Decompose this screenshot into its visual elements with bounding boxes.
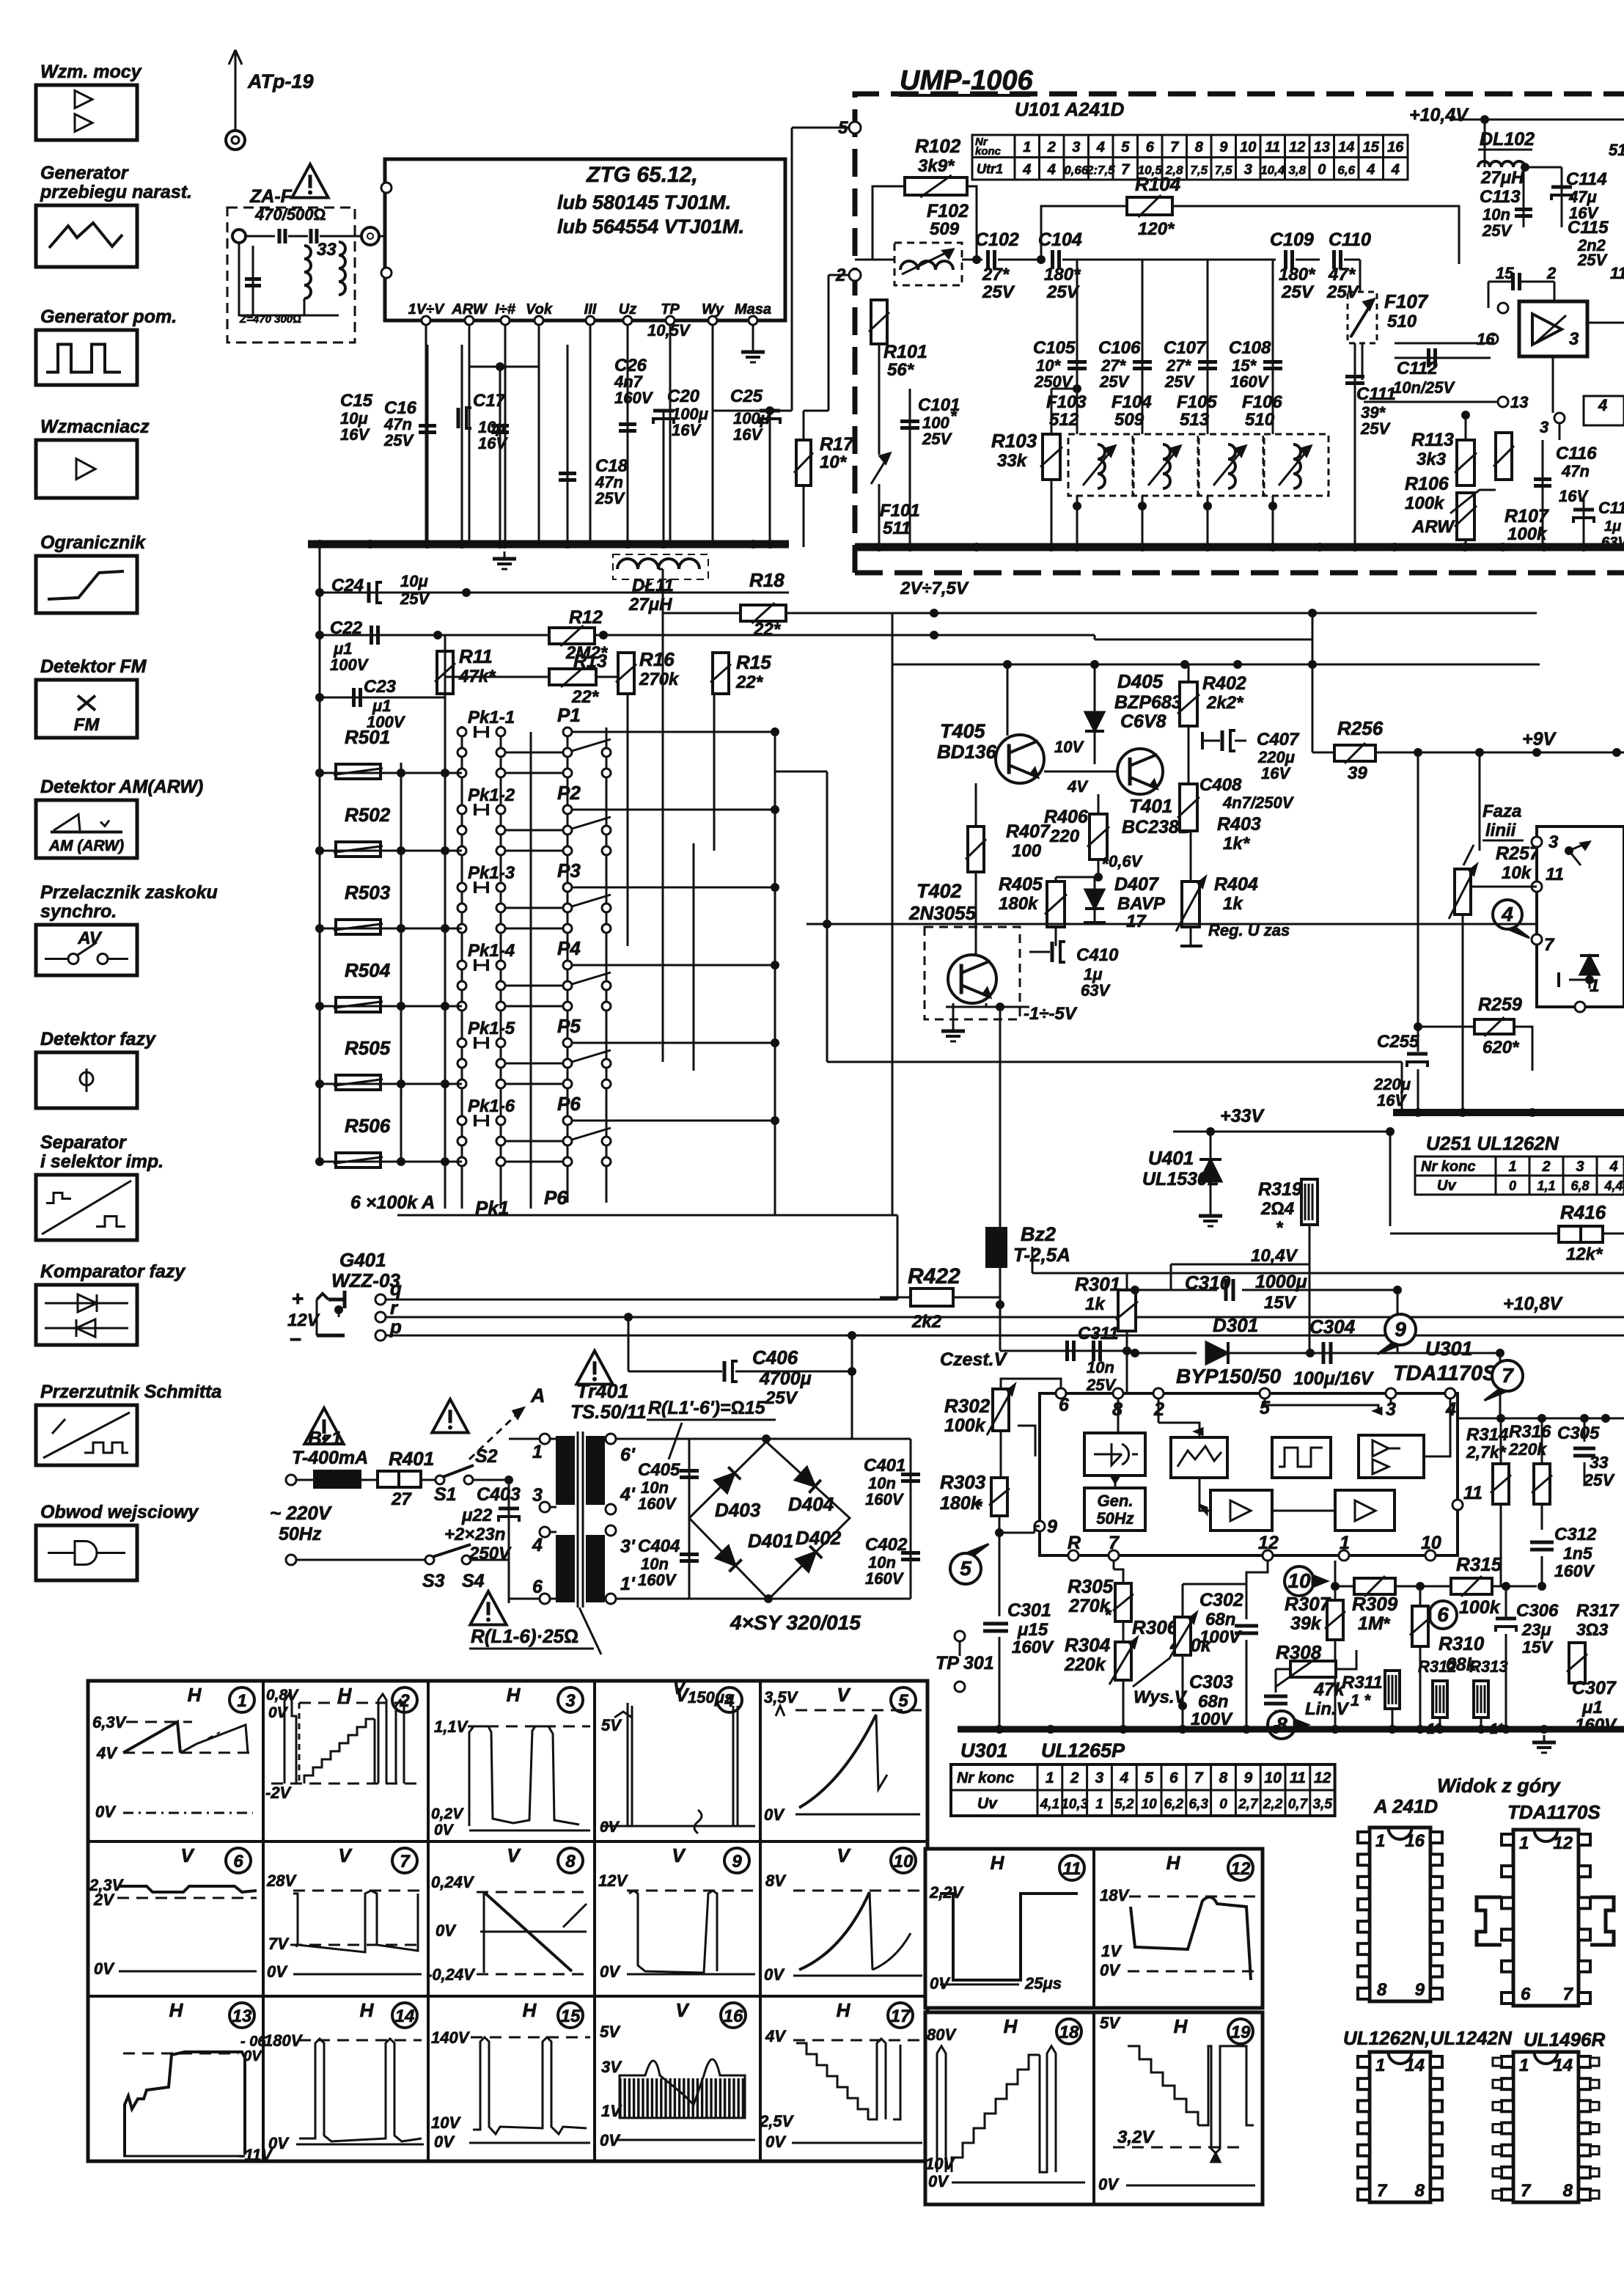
amplifier inside U101 <box>1519 301 1587 356</box>
pin circle 5 <box>849 122 861 133</box>
svg-text:C410: C410 <box>1076 945 1119 965</box>
fuse Bz2 T-2,5A <box>987 1228 1006 1267</box>
svg-text:C406: C406 <box>752 1346 798 1368</box>
svg-text:2Ω4: 2Ω4 <box>1260 1199 1294 1219</box>
svg-text:7: 7 <box>1194 1770 1204 1786</box>
U301 inner amp box 1 <box>1210 1490 1272 1531</box>
svg-text:R104: R104 <box>1135 173 1181 195</box>
matrix row wires <box>320 772 462 774</box>
svg-text:R102: R102 <box>915 135 961 157</box>
wire T402 collector down to Bz2 <box>999 1007 1002 1228</box>
svg-text:0V: 0V <box>928 2172 949 2191</box>
svg-text:*: * <box>950 407 958 425</box>
svg-text:7,5: 7,5 <box>1190 164 1208 177</box>
svg-text:512: 512 <box>1049 410 1079 430</box>
svg-text:10V: 10V <box>1054 738 1084 756</box>
svg-text:Komparator fazy: Komparator fazy <box>40 1261 185 1282</box>
svg-text:160V: 160V <box>1012 1638 1054 1657</box>
wire pin6 to R302 <box>1001 1379 1061 1389</box>
svg-text:50Hz: 50Hz <box>1096 1509 1134 1528</box>
svg-text:513: 513 <box>1180 410 1210 430</box>
svg-text:25V: 25V <box>1577 251 1608 269</box>
svg-text:16V: 16V <box>340 425 370 444</box>
svg-text:Wys.V: Wys.V <box>1134 1687 1188 1707</box>
svg-text:120*: 120* <box>1138 219 1175 239</box>
svg-text:80V: 80V <box>927 2026 957 2044</box>
capacitors in ZA-F <box>278 229 282 243</box>
svg-text:Wzmacniacz: Wzmacniacz <box>40 417 150 437</box>
svg-text:8: 8 <box>1195 139 1204 155</box>
svg-text:ATp-19: ATp-19 <box>247 70 314 92</box>
svg-text:D401: D401 <box>748 1530 793 1552</box>
ZA-F input filter dashed box <box>227 208 355 342</box>
svg-text:C255: C255 <box>1377 1032 1419 1052</box>
svg-text:DL102: DL102 <box>1480 129 1535 150</box>
svg-text:8: 8 <box>1377 1980 1387 2000</box>
svg-text:4: 4 <box>1047 162 1056 178</box>
mains input <box>286 1475 296 1485</box>
secondary pins <box>606 1434 616 1444</box>
resistor R12 <box>549 628 595 644</box>
svg-text:100k: 100k <box>1459 1597 1501 1618</box>
svg-text:6,6: 6,6 <box>1337 164 1355 177</box>
svg-text:4V: 4V <box>96 1744 118 1762</box>
svg-text:S3: S3 <box>422 1571 445 1591</box>
svg-text:1k: 1k <box>1085 1294 1106 1314</box>
svg-text:R302: R302 <box>944 1395 991 1417</box>
svg-text:23μ: 23μ <box>1521 1620 1551 1639</box>
svg-text:160V: 160V <box>1554 1561 1595 1580</box>
svg-text:R309: R309 <box>1352 1593 1398 1615</box>
svg-text:+2×: +2× <box>444 1525 474 1544</box>
svg-text:25μs: 25μs <box>1024 1974 1062 1993</box>
svg-text:V: V <box>675 1999 690 2021</box>
svg-text:F101: F101 <box>880 501 920 521</box>
svg-text:-0,24V: -0,24V <box>427 1965 476 1984</box>
svg-text:1,1V: 1,1V <box>434 1718 469 1736</box>
svg-text:1': 1' <box>620 1574 636 1594</box>
svg-text:C107: C107 <box>1164 338 1207 358</box>
svg-text:180*: 180* <box>1279 265 1316 285</box>
svg-text:C109: C109 <box>1270 230 1314 250</box>
svg-text:160V: 160V <box>865 1569 905 1588</box>
svg-text:R106: R106 <box>1405 474 1450 494</box>
resistor R16 <box>618 653 634 694</box>
svg-text:10n/25V: 10n/25V <box>1393 378 1455 397</box>
svg-text:4V: 4V <box>1067 777 1089 796</box>
svg-text:12: 12 <box>1314 1770 1331 1786</box>
transformer Tr401 <box>540 1434 550 1444</box>
svg-text:12: 12 <box>1553 1833 1573 1853</box>
svg-text:C23: C23 <box>364 677 397 697</box>
svg-text:−: − <box>290 1328 301 1351</box>
warning triangle Tr401 <box>576 1351 612 1385</box>
svg-text:220: 220 <box>1049 826 1080 846</box>
svg-text:0V: 0V <box>1098 2175 1120 2193</box>
U101 pin voltage table <box>972 135 1408 180</box>
svg-text:250V: 250V <box>469 1544 512 1564</box>
svg-text:2k2: 2k2 <box>911 1312 942 1332</box>
svg-text:C404: C404 <box>638 1536 680 1556</box>
svg-text:5: 5 <box>960 1557 971 1580</box>
svg-text:2V÷7,5V: 2V÷7,5V <box>900 579 969 598</box>
svg-text:C302: C302 <box>1199 1590 1243 1610</box>
svg-text:R315: R315 <box>1456 1553 1502 1575</box>
svg-text:R403: R403 <box>1217 814 1261 835</box>
svg-text:10μ: 10μ <box>400 572 428 590</box>
svg-text:15V: 15V <box>1522 1638 1554 1657</box>
svg-text:3: 3 <box>1548 832 1559 852</box>
svg-text:2,2: 2,2 <box>1263 1797 1283 1812</box>
svg-text:3Ω3: 3Ω3 <box>1576 1620 1608 1639</box>
svg-text:Nr konc: Nr konc <box>1421 1159 1475 1175</box>
svg-text:P6: P6 <box>544 1187 567 1209</box>
svg-text:4: 4 <box>1501 903 1513 925</box>
svg-text:R316: R316 <box>1509 1422 1551 1442</box>
svg-text:R505: R505 <box>345 1037 391 1059</box>
bridge rectifier D401-D404 <box>689 1442 850 1599</box>
svg-text:10,4: 10,4 <box>1260 164 1285 177</box>
svg-text:12k*: 12k* <box>1566 1245 1603 1264</box>
svg-text:9: 9 <box>1047 1517 1057 1537</box>
U301 pin 4 <box>1445 1388 1455 1399</box>
svg-text:R15: R15 <box>736 651 771 673</box>
svg-text:5: 5 <box>1144 1770 1153 1786</box>
svg-text:C17: C17 <box>473 391 507 411</box>
svg-text:10,5V: 10,5V <box>647 321 691 340</box>
svg-text:R310: R310 <box>1439 1632 1485 1654</box>
svg-text:UL1265P: UL1265P <box>1041 1740 1125 1762</box>
svg-text:12: 12 <box>1289 139 1305 155</box>
svg-text:6: 6 <box>1169 1770 1178 1786</box>
svg-text:13: 13 <box>232 2006 252 2026</box>
svg-text:C115: C115 <box>1568 218 1609 238</box>
wire T405 to T401 <box>1095 763 1129 765</box>
svg-text:100μ/16V: 100μ/16V <box>1293 1368 1375 1389</box>
svg-text:2:7,5: 2:7,5 <box>1086 164 1115 177</box>
svg-text:F102: F102 <box>927 201 969 221</box>
svg-text:ZA-F: ZA-F <box>249 186 293 207</box>
wire right of matrix <box>775 771 827 773</box>
svg-text:+10,4V: +10,4V <box>1409 105 1469 125</box>
svg-text:1k*: 1k* <box>1223 834 1251 854</box>
svg-text:C6V8: C6V8 <box>1120 711 1166 732</box>
svg-text:10V: 10V <box>431 2114 461 2132</box>
svg-text:linii: linii <box>1485 821 1517 840</box>
svg-text:UL1262N,UL1242N: UL1262N,UL1242N <box>1343 2027 1513 2049</box>
svg-text:C305: C305 <box>1557 1423 1600 1443</box>
svg-text:4,4: 4,4 <box>1603 1179 1623 1193</box>
svg-text:7: 7 <box>1170 139 1179 155</box>
TDA1170S heatsink tabs <box>1477 1897 1502 1945</box>
U301 pin 8 <box>1113 1388 1123 1399</box>
svg-text:13: 13 <box>1314 139 1330 155</box>
ground symbol under bus <box>504 551 506 559</box>
svg-text:6,3: 6,3 <box>1188 1797 1208 1812</box>
svg-text:+: + <box>292 1287 304 1310</box>
svg-text:T402: T402 <box>916 880 962 902</box>
capacitor C108 <box>1272 260 1274 547</box>
svg-text:P3: P3 <box>557 859 581 881</box>
ground below bus <box>1543 1735 1546 1742</box>
svg-text:39k: 39k <box>1290 1613 1322 1634</box>
svg-text:Pk1-5: Pk1-5 <box>468 1019 515 1038</box>
svg-text:H: H <box>837 1999 851 2021</box>
svg-text:+10,8V: +10,8V <box>1503 1294 1563 1314</box>
svg-text:16V: 16V <box>478 434 508 452</box>
svg-text:Bz2: Bz2 <box>1021 1223 1056 1245</box>
svg-text:Pk1-1: Pk1-1 <box>468 708 515 727</box>
svg-text:BZP683: BZP683 <box>1114 692 1182 713</box>
svg-text:C403: C403 <box>477 1484 521 1505</box>
svg-text:100k: 100k <box>1405 494 1445 513</box>
svg-text:P1: P1 <box>557 704 581 726</box>
capacitor C105 <box>1076 260 1079 547</box>
svg-text:1: 1 <box>1340 1533 1350 1553</box>
svg-text:11: 11 <box>1546 865 1564 884</box>
svg-text:6,2: 6,2 <box>1164 1797 1184 1812</box>
svg-text:27μH: 27μH <box>628 595 672 615</box>
svg-text:511: 511 <box>883 518 911 538</box>
switch S1 S2 <box>421 1479 436 1481</box>
matrix vertical rails <box>444 635 447 1209</box>
svg-text:V: V <box>507 1844 521 1866</box>
svg-text:7: 7 <box>1121 162 1130 178</box>
svg-text:R113: R113 <box>1411 430 1454 450</box>
svg-text:0V: 0V <box>95 1803 117 1821</box>
svg-text:+33V: +33V <box>1220 1106 1265 1126</box>
svg-text:P6: P6 <box>557 1093 581 1115</box>
node at ZTG input <box>361 227 379 245</box>
svg-text:lub 564554 VTJ01M.: lub 564554 VTJ01M. <box>557 216 744 238</box>
svg-text:1: 1 <box>1375 1831 1385 1851</box>
svg-text:3,8: 3,8 <box>1288 164 1306 177</box>
U301 inner squarewave box <box>1272 1437 1331 1478</box>
wire +33V down <box>1389 1132 1392 1226</box>
svg-text:25V: 25V <box>982 282 1015 302</box>
svg-text:R103: R103 <box>991 430 1037 452</box>
svg-text:Pk1-2: Pk1-2 <box>468 785 515 805</box>
svg-text:T401: T401 <box>1129 795 1172 817</box>
svg-text:160V: 160V <box>638 1571 677 1589</box>
svg-text:R304: R304 <box>1065 1634 1111 1656</box>
svg-text:3': 3' <box>620 1536 636 1557</box>
svg-text:C312: C312 <box>1554 1525 1597 1544</box>
svg-text:μ1: μ1 <box>1581 1698 1603 1718</box>
svg-text:U401: U401 <box>1148 1147 1194 1169</box>
svg-text:27*: 27* <box>982 265 1010 285</box>
svg-text:5: 5 <box>898 1691 908 1711</box>
svg-text:7V: 7V <box>268 1935 290 1953</box>
svg-text:H: H <box>1004 2015 1018 2037</box>
svg-text:14: 14 <box>1553 2056 1573 2075</box>
wire Wy to C25 <box>713 410 770 412</box>
svg-text:Separator: Separator <box>40 1132 127 1153</box>
svg-text:2: 2 <box>1546 264 1557 282</box>
oscillogram block 18/19 border <box>925 2012 1263 2204</box>
svg-text:47k: 47k <box>1313 1679 1345 1700</box>
svg-text:S1: S1 <box>434 1484 457 1505</box>
svg-text:R504: R504 <box>345 959 391 981</box>
svg-text:16V: 16V <box>1261 764 1291 782</box>
svg-text:H: H <box>188 1684 202 1706</box>
svg-text:11: 11 <box>1063 1859 1081 1879</box>
svg-text:0: 0 <box>1318 162 1326 178</box>
main ground bus left <box>308 540 789 549</box>
svg-text:3: 3 <box>1095 1770 1104 1786</box>
wire from pin 5 <box>792 127 849 129</box>
svg-text:C25: C25 <box>730 386 763 406</box>
svg-text:100V: 100V <box>1199 1627 1242 1647</box>
svg-text:4V: 4V <box>765 2027 787 2045</box>
svg-text:8: 8 <box>1563 2181 1573 2201</box>
balloon 7 <box>1492 1360 1523 1391</box>
svg-text:2,5V: 2,5V <box>759 2112 795 2130</box>
svg-text:3: 3 <box>1540 418 1548 436</box>
svg-text:6: 6 <box>1146 139 1155 155</box>
svg-text:3: 3 <box>532 1485 543 1506</box>
svg-text:6,3V: 6,3V <box>92 1713 128 1731</box>
wires around R102/F102 <box>861 128 872 177</box>
svg-text:0V: 0V <box>600 1962 621 1981</box>
U301 TDA1170S block outline <box>1040 1393 1458 1555</box>
svg-text:V: V <box>673 1679 686 1698</box>
oscillogram grid outer border <box>88 1681 927 2161</box>
svg-text:4: 4 <box>1119 1770 1128 1786</box>
svg-text:V: V <box>338 1844 353 1866</box>
svg-text:10: 10 <box>1142 1797 1158 1812</box>
svg-text:2: 2 <box>1541 1159 1550 1175</box>
balloon 9 <box>1385 1314 1416 1345</box>
svg-text:6': 6' <box>620 1445 636 1465</box>
wire secondary bottom <box>616 1598 911 1600</box>
svg-text:3: 3 <box>1576 1159 1584 1175</box>
svg-text:18: 18 <box>1059 2023 1079 2042</box>
svg-text:7: 7 <box>1563 1984 1574 2004</box>
svg-text:H: H <box>507 1684 521 1706</box>
svg-text:8: 8 <box>1415 2181 1425 2201</box>
svg-text:100k: 100k <box>944 1415 986 1436</box>
svg-text:U301: U301 <box>1425 1338 1473 1360</box>
svg-text:4: 4 <box>532 1535 543 1555</box>
svg-text:3k3: 3k3 <box>1417 450 1447 469</box>
svg-text:14: 14 <box>1338 139 1354 155</box>
svg-text:R416: R416 <box>1560 1201 1606 1223</box>
svg-text:10: 10 <box>1264 1770 1282 1786</box>
svg-text:V: V <box>180 1844 195 1866</box>
svg-text:D403: D403 <box>715 1499 761 1521</box>
svg-text:H: H <box>991 1852 1005 1874</box>
svg-text:P5: P5 <box>557 1015 581 1037</box>
svg-text:5: 5 <box>1121 139 1130 155</box>
svg-text:R501: R501 <box>345 726 390 748</box>
pin circle 2 <box>849 269 861 281</box>
svg-text:C405: C405 <box>638 1460 680 1480</box>
svg-text:5,2: 5,2 <box>1114 1797 1134 1812</box>
wire pin7 long left <box>807 923 1537 925</box>
balloon 10 <box>1285 1566 1314 1596</box>
svg-text:H: H <box>360 1999 375 2021</box>
svg-text:1n5: 1n5 <box>1563 1544 1593 1563</box>
svg-text:Bz1: Bz1 <box>308 1427 342 1449</box>
svg-text:4×SY 320/015: 4×SY 320/015 <box>730 1611 861 1634</box>
U251 IC block <box>1537 826 1624 1007</box>
svg-text:160V: 160V <box>638 1495 677 1513</box>
svg-text:17: 17 <box>1126 912 1147 931</box>
svg-text:DŁ11: DŁ11 <box>632 576 674 595</box>
svg-text:V: V <box>672 1844 686 1866</box>
oscillogram grid lines <box>262 1681 265 2161</box>
svg-text:2k2*: 2k2* <box>1206 693 1244 713</box>
svg-text:A 241D: A 241D <box>1373 1795 1438 1817</box>
svg-text:-2V: -2V <box>265 1784 293 1802</box>
svg-text:ARW: ARW <box>1411 517 1455 537</box>
svg-text:+9V: +9V <box>1522 729 1557 749</box>
svg-text:R17: R17 <box>820 434 854 455</box>
pin 13 and 3 below amp <box>1498 397 1508 407</box>
diode D403 <box>715 1473 735 1493</box>
svg-text:25V: 25V <box>1046 282 1080 302</box>
svg-text:7: 7 <box>1109 1533 1120 1553</box>
svg-text:Lin.V: Lin.V <box>1305 1699 1350 1719</box>
svg-text:H: H <box>1174 2015 1188 2037</box>
svg-text:10: 10 <box>1421 1533 1441 1553</box>
svg-text:4n7/250V: 4n7/250V <box>1222 793 1295 812</box>
svg-text:4,1: 4,1 <box>1040 1797 1059 1812</box>
svg-text:D404: D404 <box>788 1493 834 1515</box>
U301 pin 2 <box>1153 1388 1164 1399</box>
svg-text:16V: 16V <box>733 425 763 444</box>
balloon 5 <box>950 1553 981 1584</box>
svg-text:R(L1'-6')=Ω15: R(L1'-6')=Ω15 <box>648 1398 766 1418</box>
svg-text:9: 9 <box>1415 1980 1425 2000</box>
svg-text:BD136: BD136 <box>937 741 996 763</box>
svg-text:7: 7 <box>1377 2181 1388 2201</box>
svg-text:33k: 33k <box>997 451 1028 471</box>
svg-text:150μs: 150μs <box>688 1688 733 1707</box>
svg-text:C113: C113 <box>1480 187 1521 207</box>
balloon 4 <box>1493 900 1522 929</box>
svg-text:5V: 5V <box>1100 2014 1121 2032</box>
terminal r <box>375 1312 386 1322</box>
svg-text:4: 4 <box>1391 162 1400 178</box>
svg-text:synchro.: synchro. <box>40 901 117 922</box>
svg-text:Pk1-6: Pk1-6 <box>468 1096 515 1116</box>
svg-text:33: 33 <box>317 240 337 260</box>
svg-text:12: 12 <box>1258 1533 1279 1553</box>
svg-text:AM (ARW): AM (ARW) <box>48 837 124 854</box>
svg-text:16: 16 <box>724 2006 743 2026</box>
U301 inner Gen 50Hz box <box>1084 1488 1145 1531</box>
svg-text:25V: 25V <box>1164 373 1195 391</box>
wire rail y872 extension <box>1094 635 1096 639</box>
svg-text:D301: D301 <box>1213 1314 1258 1336</box>
svg-text:1M: 1M <box>1358 1613 1384 1634</box>
svg-text:7,5: 7,5 <box>1215 164 1232 177</box>
wire to R256 <box>1312 613 1314 752</box>
svg-text:BYP150/50: BYP150/50 <box>1176 1365 1282 1388</box>
svg-text:160V: 160V <box>614 389 654 407</box>
svg-text:10V: 10V <box>925 2155 955 2173</box>
svg-text:270k: 270k <box>639 670 680 689</box>
capacitor C106 <box>1142 260 1144 547</box>
svg-text:0V: 0V <box>600 1819 620 1836</box>
svg-text:0V: 0V <box>765 2133 787 2151</box>
svg-text:Obwod wejsciowy: Obwod wejsciowy <box>40 1502 199 1522</box>
svg-text:i selektor imp.: i selektor imp. <box>40 1151 163 1172</box>
resistor R107 <box>1496 433 1512 480</box>
svg-text:25V: 25V <box>1281 282 1315 302</box>
